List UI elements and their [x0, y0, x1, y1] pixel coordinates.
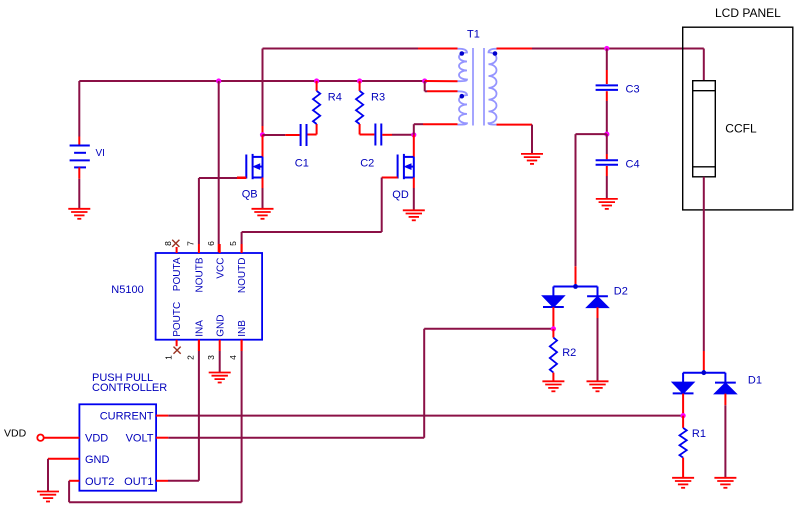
- svg-text:C3: C3: [626, 84, 640, 96]
- svg-text:QB: QB: [242, 188, 258, 200]
- wire VCC drop to pin 6: [218, 81, 220, 244]
- resistor R3: [356, 91, 363, 124]
- svg-text:GND: GND: [85, 454, 110, 466]
- node R1 junction: [681, 413, 686, 418]
- diode pair D1: [683, 372, 725, 374]
- wire D2 left to R2 node: [552, 307, 554, 329]
- ground C4: [596, 199, 618, 209]
- wire QB source: [262, 178, 264, 189]
- diode pair D2: [553, 286, 597, 288]
- wire C4 top lead: [606, 134, 608, 154]
- wire D2 right leg: [597, 307, 599, 318]
- svg-text:8: 8: [163, 241, 173, 246]
- svg-text:R4: R4: [328, 92, 342, 104]
- ground R1: [672, 478, 694, 488]
- wire battery bottom lead: [78, 167, 80, 178]
- svg-text:VDD: VDD: [4, 427, 27, 439]
- node HV rail / C3 junction: [604, 46, 609, 51]
- wire VOLT to R2 node: [156, 437, 168, 439]
- node QD drain / C2 junction: [411, 132, 416, 137]
- node C3/C4 junction: [604, 132, 609, 137]
- pin 8 stub and no-connect: [176, 247, 178, 253]
- T1 polarity dot secondary: [493, 51, 498, 56]
- node QB drain / C1 junction: [260, 132, 265, 137]
- wire R4 leads: [316, 81, 318, 91]
- svg-text:POUTA: POUTA: [172, 257, 183, 291]
- wire QB drain riser: [262, 49, 264, 127]
- svg-text:7: 7: [185, 241, 195, 246]
- svg-text:VOLT: VOLT: [126, 433, 154, 445]
- wire pin 3 to ground: [219, 351, 221, 372]
- svg-text:CURRENT: CURRENT: [100, 411, 154, 423]
- svg-text:D2: D2: [614, 286, 628, 298]
- svg-text:OUT2: OUT2: [85, 476, 114, 488]
- svg-text:INA: INA: [195, 320, 206, 337]
- wire QD gate to pin 5: [382, 177, 398, 179]
- pin 6 stub: [219, 244, 221, 253]
- svg-text:NOUTB: NOUTB: [195, 257, 206, 292]
- node rail-R4 junction: [314, 78, 319, 83]
- wire VDD to controller: [44, 437, 80, 439]
- wire C3 top lead: [606, 49, 608, 71]
- ground battery: [68, 209, 90, 219]
- wire C4 bottom lead: [606, 166, 608, 176]
- ground QB source: [252, 209, 274, 219]
- ground D1: [714, 478, 736, 488]
- svg-text:C4: C4: [626, 158, 640, 170]
- wire main VI+ rail: [79, 80, 424, 82]
- svg-text:VI: VI: [96, 148, 105, 159]
- wire D1 right leg: [724, 394, 726, 406]
- resistor R1: [680, 428, 687, 458]
- pin 4 stub: [241, 340, 243, 351]
- wire R2 top lead: [552, 329, 554, 338]
- T1 polarity dot primary lower: [460, 94, 465, 99]
- capacitor C1: [300, 124, 302, 146]
- svg-text:3: 3: [206, 355, 216, 360]
- svg-text:VDD: VDD: [85, 433, 108, 445]
- wire battery top lead: [78, 81, 80, 137]
- svg-text:QD: QD: [392, 189, 409, 201]
- wire R1 top lead: [682, 416, 684, 428]
- wire D2 anode feed: [575, 284, 577, 287]
- ground R2: [542, 381, 564, 391]
- node D2 common: [573, 284, 578, 289]
- pin 3 stub: [219, 340, 221, 351]
- node rail-R3 junction: [357, 78, 362, 83]
- wire T1 secondary bottom: [497, 124, 533, 126]
- node rail-VCC junction: [216, 78, 221, 83]
- ground QD source: [403, 210, 425, 220]
- wire QD drain stub: [413, 135, 415, 157]
- wire C3 bottom lead: [606, 91, 608, 101]
- svg-text:2: 2: [185, 355, 195, 360]
- wire C2 right lead: [382, 134, 392, 136]
- wire R3 leads: [359, 81, 361, 91]
- node T1 center tap: [422, 78, 427, 83]
- wire QD source: [413, 178, 415, 189]
- resistor R4: [313, 91, 320, 124]
- wire CCFL bottom to D1: [703, 177, 705, 351]
- svg-text:C1: C1: [295, 158, 309, 170]
- controller box: [79, 404, 156, 490]
- wire T1 center tap jog: [425, 80, 458, 82]
- T1 polarity dot primary upper: [460, 51, 465, 56]
- wire D1 anode feed: [703, 370, 705, 373]
- pin 2 stub: [198, 340, 200, 351]
- svg-text:N5100: N5100: [111, 284, 143, 296]
- transistor QD: [398, 154, 414, 179]
- svg-text:VCC: VCC: [215, 258, 226, 279]
- lamp CCFL: [693, 81, 716, 177]
- wire OUT1 to INA: [156, 480, 168, 482]
- wire C1 left lead: [263, 134, 286, 136]
- wire R1 bottom lead: [682, 458, 684, 478]
- IC N5100 box: [156, 253, 263, 340]
- svg-text:R2: R2: [562, 347, 576, 359]
- svg-text:LCD PANEL: LCD PANEL: [715, 6, 781, 20]
- svg-text:5: 5: [228, 241, 238, 246]
- pin 7 stub: [198, 244, 200, 253]
- svg-text:6: 6: [206, 241, 216, 246]
- pin 1 stub and no-connect: [176, 340, 178, 347]
- svg-text:4: 4: [228, 355, 238, 360]
- svg-text:GND: GND: [215, 315, 226, 337]
- svg-text:INB: INB: [237, 320, 248, 337]
- svg-text:1: 1: [164, 355, 174, 360]
- node R2 junction: [551, 326, 556, 331]
- svg-text:T1: T1: [467, 29, 480, 41]
- svg-text:R1: R1: [692, 428, 706, 440]
- wire R2 bottom lead: [552, 373, 554, 381]
- node D1 common: [701, 370, 706, 375]
- wire CURRENT to R1 node: [156, 415, 168, 417]
- svg-text:OUT1: OUT1: [124, 476, 153, 488]
- ground T1 secondary: [521, 154, 543, 164]
- svg-text:D1: D1: [748, 374, 762, 386]
- terminal VDD: [37, 435, 43, 441]
- capacitor C4: [596, 159, 618, 161]
- wire QB gate stub: [237, 177, 246, 179]
- resistor R2: [550, 338, 557, 373]
- wire QB drain stub: [262, 135, 264, 157]
- wire controller GND: [48, 458, 79, 460]
- LCD panel box: [683, 27, 793, 210]
- wire C3/C4 tap to D2: [576, 133, 607, 135]
- transformer T1 secondary winding: [489, 49, 498, 125]
- ground D2: [587, 381, 609, 391]
- capacitor C2: [374, 124, 376, 146]
- pin 5 stub: [241, 244, 243, 253]
- svg-text:C2: C2: [360, 158, 374, 170]
- wire D1 left to R1 node: [682, 394, 684, 416]
- capacitor C3: [596, 84, 618, 86]
- wire pin 7 to QB gate: [198, 178, 200, 244]
- svg-text:CONTROLLER: CONTROLLER: [92, 382, 167, 394]
- wire top rail to T1 primary top: [263, 48, 419, 50]
- svg-text:CCFL: CCFL: [725, 122, 757, 136]
- svg-text:POUTC: POUTC: [172, 302, 183, 337]
- ground controller: [37, 492, 59, 502]
- wire QD drain to T1 primary bottom: [413, 124, 415, 135]
- transistor QB: [246, 154, 262, 179]
- battery VI: [70, 146, 90, 168]
- svg-text:R3: R3: [371, 92, 385, 104]
- transformer T1 primary winding upper: [458, 49, 468, 81]
- wire OUT2 to INB: [69, 480, 79, 482]
- svg-text:NOUTD: NOUTD: [237, 258, 248, 294]
- wire T1 secondary top to HV rail: [497, 48, 533, 50]
- ground IC pin 3: [209, 373, 231, 383]
- transformer T1 core: [472, 48, 474, 126]
- transformer T1 primary winding lower: [458, 91, 468, 124]
